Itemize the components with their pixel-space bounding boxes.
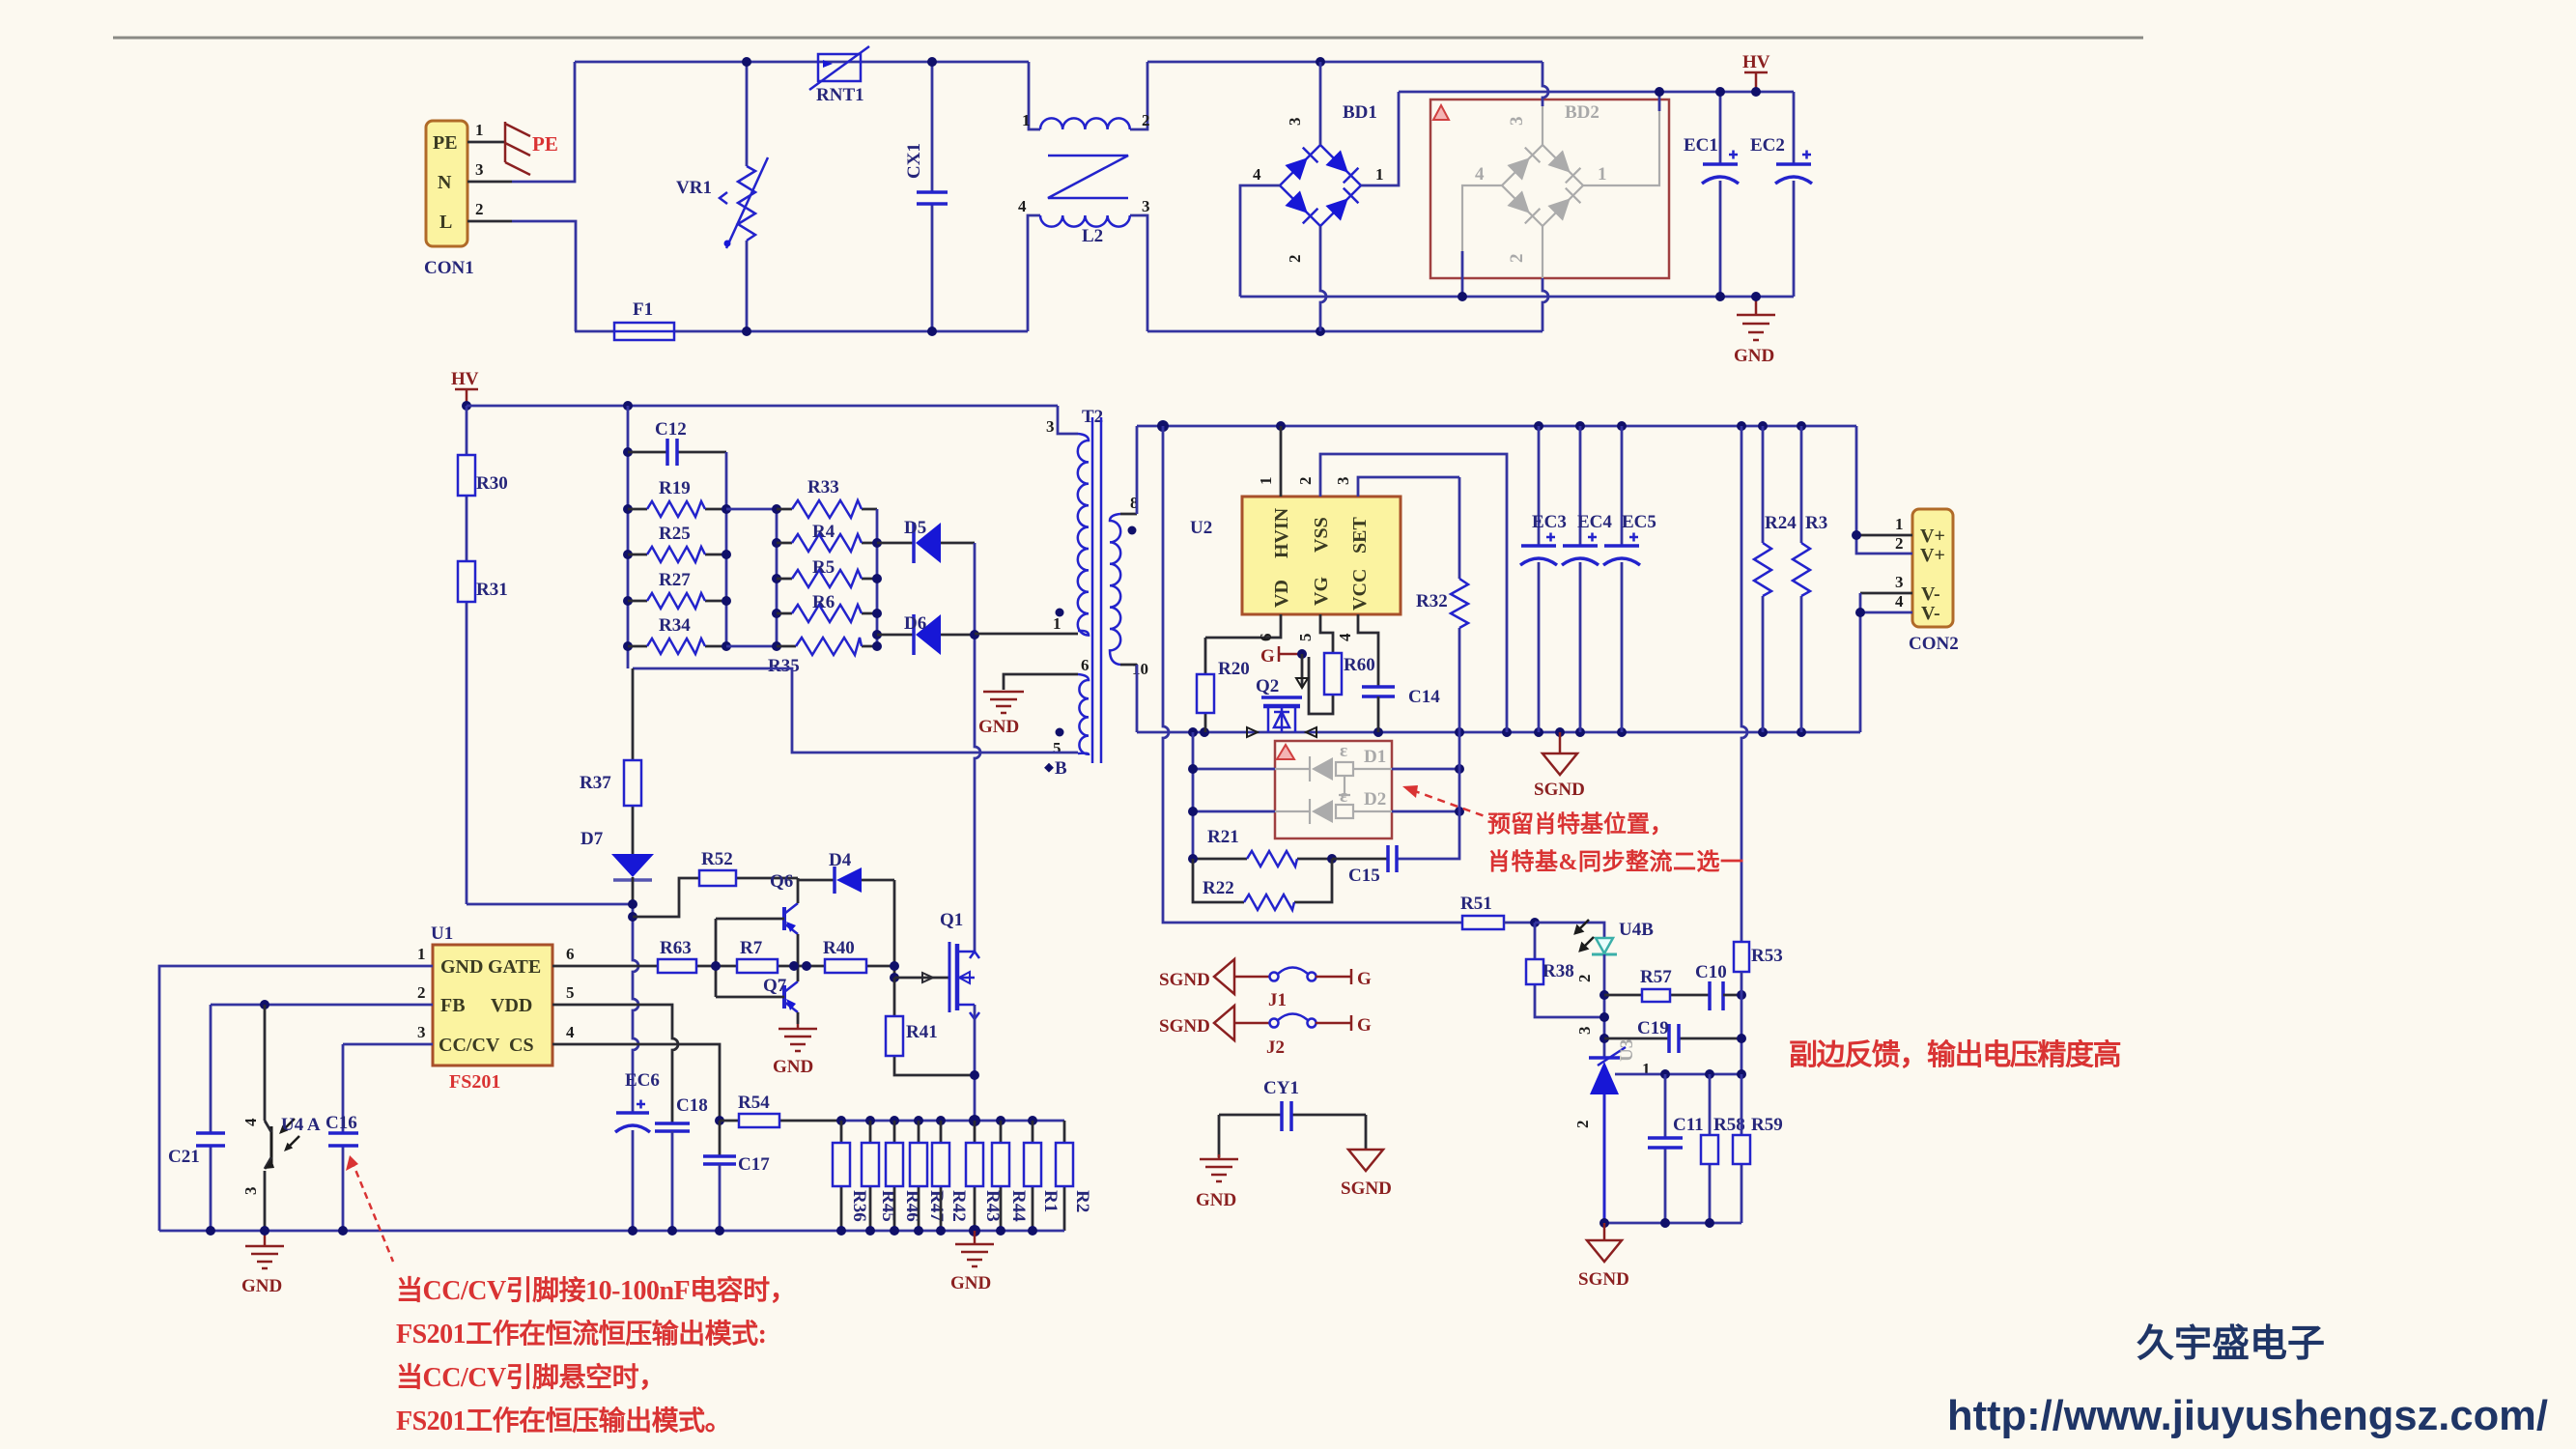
wire secondary bottom rail xyxy=(1137,731,1860,734)
svg-text:GND: GND xyxy=(950,1273,991,1293)
svg-text:R25: R25 xyxy=(659,524,691,544)
varistor VR1 xyxy=(676,62,768,331)
resistor R24 xyxy=(1754,426,1797,732)
annotation arrow to C16 xyxy=(346,1155,393,1262)
svg-text:U2: U2 xyxy=(1190,518,1212,538)
wire LED cathode down xyxy=(1603,954,1606,1058)
svg-text:CX1: CX1 xyxy=(904,143,924,179)
svg-text:R21: R21 xyxy=(1207,827,1239,847)
IC U2 sync rectifier xyxy=(1190,497,1401,614)
mosfet Q1 xyxy=(940,910,979,1019)
svg-text:CS: CS xyxy=(509,1035,534,1056)
transformer T2 xyxy=(975,406,1148,763)
svg-text:HV: HV xyxy=(1742,52,1770,72)
CON1 pin 1 xyxy=(467,121,505,142)
svg-text:3: 3 xyxy=(1507,117,1527,127)
resistor R2 xyxy=(1056,1121,1092,1231)
bridge rectifier BD2 (not fitted) xyxy=(1462,102,1659,278)
junction bottom rail dots xyxy=(1188,727,1198,737)
svg-text:Q6: Q6 xyxy=(770,871,793,892)
svg-text:3: 3 xyxy=(241,1187,260,1196)
wire C12 bank left rail xyxy=(627,406,630,668)
bridge rectifier BD1 xyxy=(1240,62,1399,331)
port SGND J1 xyxy=(1159,959,1234,994)
junction EC1 top xyxy=(1715,87,1725,97)
junction R21 left xyxy=(1188,854,1198,864)
svg-text:4: 4 xyxy=(1895,592,1904,611)
svg-text:EC2: EC2 xyxy=(1750,135,1785,156)
wire gate arrow to Q1 xyxy=(894,973,949,982)
resistor R47 xyxy=(910,1121,947,1231)
svg-text:1: 1 xyxy=(417,945,426,963)
junction Q6 emitter xyxy=(789,961,799,971)
junction D1 right xyxy=(1455,764,1464,774)
svg-text:F1: F1 xyxy=(633,299,653,320)
wire top rail to bridges xyxy=(1147,61,1543,64)
capacitor C10 xyxy=(1695,962,1741,1010)
resistor R5 xyxy=(777,557,877,587)
svg-text:J2: J2 xyxy=(1266,1037,1285,1058)
svg-text:EC3: EC3 xyxy=(1532,512,1567,532)
diode D7 xyxy=(580,829,654,904)
wire feedback V+ down to R51 xyxy=(1163,426,1462,923)
svg-text:4: 4 xyxy=(1336,633,1354,641)
jumper J2 xyxy=(1234,1014,1351,1059)
wire Q1 source down xyxy=(974,1005,977,1121)
ground GND aux xyxy=(978,692,1024,737)
svg-text:N: N xyxy=(438,172,452,193)
junction C12 bank top xyxy=(623,401,633,411)
junction drain D6 xyxy=(970,630,979,639)
svg-text:4: 4 xyxy=(241,1118,260,1126)
resistor R54 xyxy=(720,1093,841,1127)
svg-text:6: 6 xyxy=(1257,634,1275,642)
wire primary ground rail xyxy=(159,1230,1064,1233)
svg-text:R53: R53 xyxy=(1751,946,1783,966)
wire SET rail lower xyxy=(1397,732,1459,859)
svg-text:BD1: BD1 xyxy=(1343,102,1377,123)
junction BD1 pin2 xyxy=(1316,327,1325,336)
svg-text:RNT1: RNT1 xyxy=(816,85,864,105)
svg-text:R32: R32 xyxy=(1416,591,1448,611)
capacitor EC2 xyxy=(1750,92,1812,297)
svg-text:R24: R24 xyxy=(1765,513,1797,533)
resistor R58 xyxy=(1701,1074,1745,1223)
U1 pin 5 VDD xyxy=(552,983,678,1123)
U1 pin 3 wire CC/CV xyxy=(343,1023,433,1044)
resistor R36 xyxy=(833,1121,869,1231)
resistor R51 xyxy=(1460,894,1535,929)
svg-text:R47: R47 xyxy=(926,1190,947,1222)
wire bank link bottom xyxy=(726,645,777,648)
svg-text:5: 5 xyxy=(566,983,575,1002)
junction dots left rail xyxy=(623,447,633,457)
svg-text:3: 3 xyxy=(1286,118,1304,127)
capacitor EC5 xyxy=(1603,426,1656,732)
svg-text:C15: C15 xyxy=(1348,866,1380,886)
ground GND sense xyxy=(950,1231,994,1293)
svg-text:1: 1 xyxy=(1598,164,1607,185)
svg-text:FS201: FS201 xyxy=(449,1071,500,1093)
svg-text:R1: R1 xyxy=(1040,1190,1061,1212)
resistor R57 xyxy=(1604,967,1710,1002)
optocoupler U4A xyxy=(241,1005,321,1231)
svg-text:SGND: SGND xyxy=(1341,1179,1392,1199)
svg-text:3: 3 xyxy=(417,1023,426,1041)
port G J1 xyxy=(1351,969,1372,989)
svg-text:CON2: CON2 xyxy=(1909,634,1959,654)
junction CX1 top xyxy=(927,57,937,67)
svg-text:U3: U3 xyxy=(1617,1039,1637,1062)
svg-text:http://www.jiuyushengsz.com/: http://www.jiuyushengsz.com/ xyxy=(1947,1393,2548,1439)
resistor R3 xyxy=(1793,426,1827,732)
resistor R60 xyxy=(1309,653,1375,714)
svg-text:VDD: VDD xyxy=(491,995,532,1016)
svg-text:R59: R59 xyxy=(1751,1115,1783,1135)
CON1 pin 2 xyxy=(467,200,512,221)
shunt regulator U3 xyxy=(1573,1039,1651,1223)
capacitor C11 xyxy=(1648,1074,1704,1223)
junction base node xyxy=(711,961,721,971)
CON2 pin1 xyxy=(1856,515,1912,535)
wire secondary output rail xyxy=(1137,425,1856,428)
svg-text:CC/CV: CC/CV xyxy=(439,1035,500,1056)
U1 pin 6 gate row xyxy=(552,945,894,966)
svg-text:R19: R19 xyxy=(659,478,691,498)
svg-text:C19: C19 xyxy=(1637,1018,1669,1038)
wire BD2 pin2 xyxy=(1543,278,1548,331)
resistor R30 xyxy=(458,406,508,561)
svg-text:C12: C12 xyxy=(655,419,687,440)
U1 pin 4 CS xyxy=(552,1023,720,1121)
svg-text:5: 5 xyxy=(1296,634,1315,642)
svg-text:L: L xyxy=(439,212,452,233)
svg-text:R20: R20 xyxy=(1218,659,1250,679)
svg-text:G: G xyxy=(1357,969,1372,989)
CON2 pin2 xyxy=(1856,426,1912,554)
wire BD2 pin3 xyxy=(1543,62,1548,106)
svg-text:R57: R57 xyxy=(1640,967,1672,987)
svg-text:U4 A: U4 A xyxy=(281,1115,321,1135)
junction HV xyxy=(1751,87,1761,97)
capacitor C18 xyxy=(655,1095,708,1231)
svg-text:FB: FB xyxy=(440,995,466,1016)
resistor R19 xyxy=(628,478,726,517)
svg-text:R42: R42 xyxy=(948,1190,969,1222)
junction fb ground dots xyxy=(1599,1218,1609,1228)
svg-text:R51: R51 xyxy=(1460,894,1492,914)
CON2 pin3 xyxy=(1860,573,1912,593)
resistor R7 xyxy=(737,938,778,973)
svg-text:J1: J1 xyxy=(1268,990,1287,1010)
red option box BD2 xyxy=(1430,99,1669,278)
svg-text:R6: R6 xyxy=(812,592,835,612)
junction D2 left xyxy=(1188,807,1198,816)
resistor R37 xyxy=(580,668,641,854)
svg-text:R60: R60 xyxy=(1344,655,1375,675)
junction R51 out xyxy=(1530,918,1540,927)
svg-text:4: 4 xyxy=(1018,197,1027,215)
svg-text:D1: D1 xyxy=(1364,747,1386,767)
svg-text:D4: D4 xyxy=(829,850,852,870)
svg-text:3: 3 xyxy=(1142,197,1150,215)
wire T2 pin8 to output rail xyxy=(1136,426,1139,514)
svg-text:R22: R22 xyxy=(1203,878,1234,898)
svg-text:GND: GND xyxy=(978,717,1019,737)
svg-text:2: 2 xyxy=(1575,975,1594,983)
resistor R31 xyxy=(458,561,508,904)
svg-text:R36: R36 xyxy=(849,1190,869,1222)
svg-text:3: 3 xyxy=(1046,417,1055,436)
svg-text:R35: R35 xyxy=(768,656,800,676)
svg-text:GND: GND xyxy=(440,956,483,978)
svg-text:EC4: EC4 xyxy=(1577,512,1612,532)
junction output rail dots xyxy=(1157,420,1169,432)
net label B xyxy=(1044,758,1067,779)
junction D2 right xyxy=(1455,807,1464,816)
svg-text:R7: R7 xyxy=(740,938,763,958)
connector CON1 xyxy=(424,121,474,278)
diode D5 xyxy=(877,518,975,563)
wire BD2 pin1 xyxy=(1658,92,1661,111)
ground GND opto xyxy=(241,1231,284,1296)
svg-text:预留肖特基位置，: 预留肖特基位置， xyxy=(1487,810,1673,838)
junction gate node xyxy=(890,973,899,982)
junction HV primary xyxy=(462,401,471,411)
svg-text:5: 5 xyxy=(1053,739,1062,757)
fuse F1 xyxy=(614,299,674,340)
annotation arrow to D2 xyxy=(1402,785,1487,817)
resistor R43 xyxy=(966,1121,1003,1231)
port SGND J2 xyxy=(1159,1006,1234,1040)
junction R57 tap xyxy=(1599,990,1609,1000)
resistor R42 xyxy=(932,1121,969,1231)
svg-text:R5: R5 xyxy=(812,557,835,578)
resistor R4 xyxy=(777,522,877,552)
PE earth symbol xyxy=(505,122,558,175)
resistor R46 xyxy=(886,1121,922,1231)
CON1 pin 3 xyxy=(467,160,512,182)
svg-text:C21: C21 xyxy=(168,1147,200,1167)
svg-text:V+: V+ xyxy=(1920,526,1945,547)
junction R40 out xyxy=(890,961,899,971)
svg-text:R34: R34 xyxy=(659,615,691,636)
red option box D1 D2 xyxy=(1275,741,1392,838)
svg-text:EC6: EC6 xyxy=(625,1070,660,1091)
top border line xyxy=(113,37,2143,40)
svg-text:U1: U1 xyxy=(431,923,453,944)
connector CON2 xyxy=(1909,509,1959,654)
svg-text:久宇盛电子: 久宇盛电子 xyxy=(2137,1323,2325,1365)
svg-text:R63: R63 xyxy=(660,938,692,958)
svg-text:C14: C14 xyxy=(1408,687,1440,707)
resistor R33 xyxy=(777,477,877,518)
junction D7 node xyxy=(628,899,637,909)
junction REF dots xyxy=(1660,1069,1670,1079)
junction BD2 pin4 xyxy=(1458,292,1467,301)
wire T2 pin5 B line xyxy=(633,668,1078,753)
junction R52 tap xyxy=(628,912,637,922)
svg-text:VCC: VCC xyxy=(1349,569,1371,611)
jumper J1 xyxy=(1234,968,1351,1011)
svg-text:R33: R33 xyxy=(807,477,839,497)
svg-text:SET: SET xyxy=(1349,517,1371,554)
U2 pin 1 xyxy=(1257,426,1281,497)
optocoupler LED U4B xyxy=(1575,920,1654,982)
port G xyxy=(1260,646,1302,667)
svg-text:U4B: U4B xyxy=(1619,920,1654,940)
resistor R34 xyxy=(628,615,726,654)
junction R38 tap xyxy=(1599,1012,1609,1022)
svg-text:VD: VD xyxy=(1271,580,1292,608)
junction CX1 bottom xyxy=(927,327,937,336)
resistor R6 xyxy=(777,592,877,622)
svg-text:1: 1 xyxy=(1257,477,1275,486)
resistor R40 xyxy=(823,938,866,973)
capacitor C21 xyxy=(168,1005,225,1231)
U2 pin 3 xyxy=(1334,477,1459,497)
svg-text:GATE: GATE xyxy=(488,956,541,978)
svg-text:2: 2 xyxy=(1895,534,1904,553)
wire DC minus rail xyxy=(1240,296,1794,298)
resistor R52 xyxy=(633,849,798,917)
junction BD1 pin3 xyxy=(1316,57,1325,67)
svg-text:1: 1 xyxy=(475,121,484,139)
U2 pin 5 xyxy=(1296,614,1333,653)
resistor R25 xyxy=(628,524,726,562)
svg-text:肖特基&同步整流二选一: 肖特基&同步整流二选一 xyxy=(1487,849,1744,875)
svg-text:C10: C10 xyxy=(1695,962,1727,982)
junction FB-opto xyxy=(260,1000,269,1009)
junction R41 bottom xyxy=(970,1070,979,1080)
resistor R27 xyxy=(628,570,726,609)
svg-text:BD2: BD2 xyxy=(1565,102,1599,123)
wire sense bank top rail xyxy=(841,1120,1064,1122)
svg-text:PE: PE xyxy=(532,132,558,156)
resistor R45 xyxy=(862,1121,898,1231)
svg-text:3: 3 xyxy=(475,160,484,179)
junction C19 tap xyxy=(1599,1034,1609,1043)
wire D7 node verticals xyxy=(633,904,638,1113)
svg-text:G: G xyxy=(1260,646,1275,667)
diode D4 xyxy=(798,850,894,894)
svg-text:2: 2 xyxy=(475,200,484,218)
ground GND right xyxy=(1734,297,1775,366)
capacitor C19 xyxy=(1604,1018,1741,1053)
svg-text:EC1: EC1 xyxy=(1684,135,1718,156)
ground SGND mid xyxy=(1534,732,1585,800)
svg-text:1: 1 xyxy=(1022,111,1031,129)
svg-text:ɛ: ɛ xyxy=(1340,786,1347,807)
wire AC bottom to bridges xyxy=(1147,330,1543,333)
common mode choke L2 xyxy=(1018,62,1150,331)
diode D2 (not fitted) xyxy=(1193,786,1459,824)
svg-text:当CC/CV引脚悬空时，: 当CC/CV引脚悬空时， xyxy=(396,1361,665,1393)
junction C10 out xyxy=(1737,990,1746,1000)
warning triangle 2 xyxy=(1277,745,1294,759)
wire drain node vertical xyxy=(975,543,980,952)
junction EC1 bottom xyxy=(1715,292,1725,301)
transistor Q6 xyxy=(716,871,798,966)
wire L to bottom rail xyxy=(512,221,576,331)
U1 pin 2 wire FB xyxy=(211,983,433,1005)
svg-text:R31: R31 xyxy=(476,580,508,600)
svg-text:C17: C17 xyxy=(738,1154,770,1175)
svg-text:VG: VG xyxy=(1311,577,1332,606)
svg-text:4: 4 xyxy=(566,1023,575,1041)
svg-text:GND: GND xyxy=(773,1057,813,1077)
svg-text:C16: C16 xyxy=(326,1113,357,1133)
resistor R32 xyxy=(1416,477,1468,732)
svg-text:GND: GND xyxy=(241,1276,282,1296)
svg-text:Q1: Q1 xyxy=(940,910,963,930)
svg-text:副边反馈，输出电压精度高: 副边反馈，输出电压精度高 xyxy=(1789,1039,2121,1071)
junction CON2 V- xyxy=(1855,608,1865,617)
svg-text:B: B xyxy=(1055,758,1067,779)
svg-text:1: 1 xyxy=(1375,165,1384,184)
svg-text:2: 2 xyxy=(417,983,426,1002)
svg-text:CY1: CY1 xyxy=(1263,1078,1299,1098)
capacitor C16 xyxy=(326,1044,358,1231)
svg-text:GND: GND xyxy=(1196,1190,1236,1210)
junction R21 right xyxy=(1327,854,1337,864)
svg-text:L2: L2 xyxy=(1082,226,1103,246)
U2 pin 4 xyxy=(1336,614,1378,687)
svg-text:1: 1 xyxy=(1895,515,1904,533)
thermistor RNT1 xyxy=(809,46,869,105)
resistor R1 xyxy=(1024,1121,1061,1231)
junction GND xyxy=(1751,292,1761,301)
svg-text:2: 2 xyxy=(1296,477,1315,486)
svg-text:CON1: CON1 xyxy=(424,258,474,278)
wire R51 node to LED xyxy=(1535,923,1604,938)
capacitor EC1 xyxy=(1684,92,1739,297)
svg-text:2: 2 xyxy=(1507,254,1527,264)
diode D6 xyxy=(877,613,975,655)
svg-text:D7: D7 xyxy=(580,829,604,849)
junction CON2 V+ xyxy=(1852,530,1861,540)
svg-text:R40: R40 xyxy=(823,938,855,958)
warning triangle xyxy=(1433,105,1449,120)
wire bank link top xyxy=(726,508,777,511)
resistor R59 xyxy=(1733,1074,1783,1223)
mosfet Q2 xyxy=(1247,654,1316,737)
svg-text:EC5: EC5 xyxy=(1622,512,1656,532)
svg-text:SGND: SGND xyxy=(1159,1016,1210,1037)
IC U1 FS201 xyxy=(431,923,552,1093)
power port HV (primary) xyxy=(451,369,479,406)
svg-text:R54: R54 xyxy=(738,1093,770,1113)
wire BD1 plus to caps xyxy=(1399,91,1794,94)
svg-text:1: 1 xyxy=(1053,614,1062,633)
svg-text:2: 2 xyxy=(1573,1121,1592,1129)
U1 pin 1 wire xyxy=(159,945,433,1231)
svg-text:R30: R30 xyxy=(476,473,508,494)
svg-text:FS201工作在恒流恒压输出模式:: FS201工作在恒流恒压输出模式: xyxy=(396,1318,767,1350)
U2 pin 6 xyxy=(1205,614,1281,641)
svg-text:HVIN: HVIN xyxy=(1271,507,1292,558)
junction BD2 pin1 xyxy=(1655,87,1664,97)
resistor R41 xyxy=(886,978,975,1075)
svg-text:D6: D6 xyxy=(904,613,926,634)
svg-text:当CC/CV引脚接10-100nF电容时，: 当CC/CV引脚接10-100nF电容时， xyxy=(396,1274,796,1306)
wire BD2 pin4 xyxy=(1461,251,1464,297)
U2 pin 2 xyxy=(1296,454,1507,732)
svg-text:V-: V- xyxy=(1921,583,1940,605)
svg-text:4: 4 xyxy=(1253,165,1261,184)
wire V+ sense down xyxy=(1741,426,1747,942)
wire HV rail to T2 xyxy=(467,405,1058,408)
